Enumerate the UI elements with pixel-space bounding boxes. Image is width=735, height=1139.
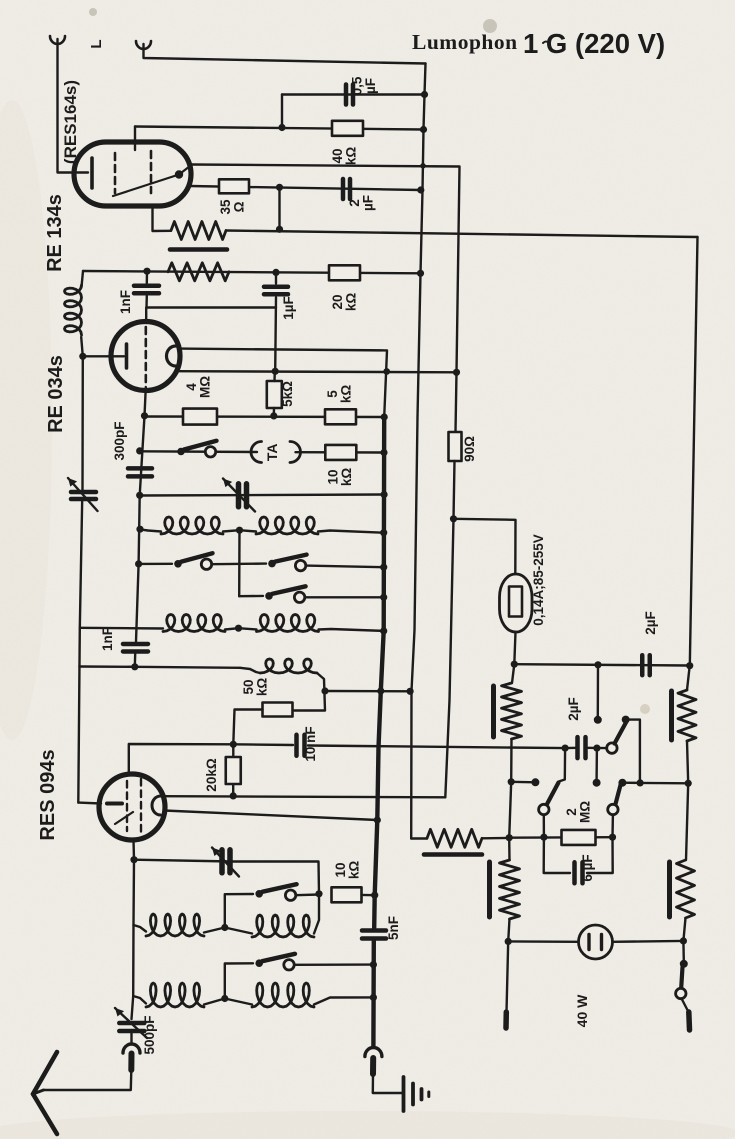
wire: RES094s anode line [163, 796, 445, 797]
junction bank2 / center bus [380, 627, 387, 634]
junction wire665 / switch drop [594, 661, 601, 668]
junction switch4 / center bus [370, 961, 377, 968]
wire: RE034s cathode lead [83, 355, 124, 357]
junction wire691 / B+ bus [407, 688, 414, 695]
wire: 5k vert stems [273, 371, 276, 381]
svg-text:500pF: 500pF [142, 1015, 157, 1054]
switch upper: circle [607, 743, 617, 753]
wire: jack to antenna [44, 1070, 132, 1090]
resistor 20kOhm (top) [329, 265, 360, 280]
wire bank4 mid [204, 999, 252, 1005]
mains switch pivot [680, 960, 688, 968]
inductor bank1 left coil [161, 517, 223, 534]
RE134s cathode bar [90, 158, 94, 188]
inductor bank4 right coil [252, 983, 314, 1007]
ground symbol [402, 1077, 406, 1111]
junction trimmer leg / switch wire [315, 890, 322, 897]
junction switchrow2 / center bus [380, 594, 387, 601]
capacitor 2uF (switch) [575, 737, 580, 758]
wire: coupling coil left stem [240, 668, 260, 673]
wire: jack to earth [373, 1074, 402, 1093]
junction row1 / center bus [381, 413, 388, 420]
antenna symbol [33, 1052, 57, 1094]
stray mark above title [543, 42, 549, 44]
wire switchrow2 b [305, 596, 384, 598]
junction switchrow1 / center bus [380, 564, 387, 571]
inductor bank2 left coil [163, 615, 225, 632]
wire switchrow1 a [139, 563, 172, 566]
switch contact stub [511, 781, 535, 784]
wire right dropper mid2 [686, 783, 688, 860]
wire: 1uF drop lower [274, 298, 277, 372]
resistor 90Ohm [449, 432, 462, 461]
wire: RE034s grid bus [136, 387, 146, 642]
svg-text:2µF: 2µF [643, 611, 658, 635]
svg-text:40 W: 40 W [574, 994, 590, 1027]
resistor dropper upper [502, 683, 522, 739]
RE034s grid dashed [145, 327, 148, 387]
wire: 90Ohm chain lower [454, 461, 455, 519]
RES094s grid dashed 2 [140, 779, 142, 833]
wire: mains switch tail [682, 999, 689, 1013]
dropper upper bar [491, 686, 496, 737]
switch left lower: blade [547, 783, 559, 806]
wire: lamp row right [613, 940, 684, 943]
wire right dropper tail [683, 918, 685, 941]
RE134s anode exit [179, 165, 192, 175]
junction bank4 / center bus [370, 994, 377, 1001]
capacitor 300pF [128, 466, 152, 471]
wire: 35Ohm row [190, 186, 421, 190]
junction right dropper / wire783 [685, 780, 692, 787]
wire: left column tube to bank4 [132, 860, 135, 1019]
capacitor 500pF (variable) [119, 1021, 144, 1026]
wire: left circle to 2M row [543, 815, 546, 838]
wire: RES094s second exit [164, 811, 377, 821]
earth jack socket [365, 1048, 382, 1057]
resistor 20kOhm (grid leak) [226, 757, 241, 784]
resistor (output heater) zigzag [427, 829, 482, 847]
svg-text:6 µF: 6 µF [580, 854, 595, 881]
junction row2 / center bus [380, 449, 387, 456]
capacitor 2uF (anode) [341, 179, 346, 199]
junction fuse / wire665 [511, 661, 518, 668]
row3 trimmer arrow [223, 479, 255, 512]
mains terminal pin (left) [503, 1012, 509, 1028]
svg-text:RE 134s: RE 134s [44, 194, 66, 272]
switch upper: blade [615, 722, 627, 744]
mains switch blade [681, 967, 682, 988]
wire: RES094s grid wire [129, 744, 293, 772]
inductor (RE034s cathode coil, vertical) [65, 285, 82, 335]
svg-text:1 G (220 V): 1 G (220 V) [523, 28, 665, 59]
contact dot (lower right switch) [593, 779, 601, 787]
svg-text:50kΩ: 50kΩ [241, 678, 270, 697]
wire: post2 to top-right bus corner [144, 44, 426, 64]
junction line B / 1uF drop [272, 368, 279, 375]
junction 50k / grid wire [230, 741, 237, 748]
svg-text:2µF: 2µF [566, 697, 581, 721]
wire: pivot elbow [626, 720, 640, 783]
switch upper: pivot dot [622, 716, 630, 724]
wire: trimmer row [134, 860, 232, 862]
wire: 1nF stem top [146, 271, 149, 283]
wire: 2M row [509, 836, 612, 839]
junction bank3 center [221, 924, 228, 931]
mains switch circle [676, 988, 686, 998]
resistor 5kOhm (vertical) [267, 381, 282, 408]
resistor dropper lower [500, 860, 520, 919]
junction bus / 2uF row [417, 186, 424, 193]
junction dropper / contact stub [508, 778, 515, 785]
wire: 1nF row [79, 665, 134, 668]
svg-text:90Ω: 90Ω [462, 436, 477, 462]
junction grid bus row3 [136, 492, 143, 499]
capacitor 2uF (right) [640, 655, 645, 675]
resistor 4MOhm [183, 409, 217, 425]
wire: drop from 35Ohm row [278, 187, 280, 229]
right dropper upper bar [669, 691, 674, 740]
wire: switch3 to 10k [296, 893, 319, 896]
svg-text:10kΩ: 10kΩ [326, 468, 355, 487]
svg-text:Lumophon: Lumophon [412, 30, 518, 54]
wire: 6uF loop [544, 837, 570, 873]
tube RE 034s envelope [111, 322, 180, 391]
resistor right dropper upper [678, 690, 696, 741]
heater bar [170, 247, 227, 252]
inductor bank4 left coil [146, 983, 204, 1007]
junction line B / 90Ohm drop [453, 369, 460, 376]
svg-text:0,5µF: 0,5µF [350, 76, 379, 95]
variable capacitor (left bus) [71, 490, 96, 495]
wire bank3 left [134, 925, 147, 932]
junction cathode tap [79, 353, 86, 360]
RES094s grid dashed 1 [126, 781, 128, 831]
wire: pivot link [622, 782, 640, 785]
capacitor 1uF [264, 285, 288, 290]
capacitor 6uF [572, 862, 577, 883]
heater resistor bar [424, 852, 482, 857]
antenna terminal post 1 [50, 36, 65, 44]
variable capacitor (antenna trim) [219, 850, 225, 873]
antenna terminal post 2 [136, 41, 151, 49]
junction tube stem / trimmer row [130, 856, 137, 863]
wire bank2 mid [225, 628, 257, 629]
svg-text:5nF: 5nF [386, 916, 401, 940]
wire: row3 [140, 495, 384, 496]
junction 1nF top [143, 268, 150, 275]
capacitor 10nF [294, 735, 299, 756]
wire: cap terminal drop [595, 748, 598, 779]
RES094s cathode bar [107, 802, 122, 806]
scan smudge 2 [640, 704, 650, 714]
svg-text:10kΩ: 10kΩ [333, 861, 362, 880]
capacitor 1nF (top) [134, 284, 159, 289]
contact dot (left switch) [531, 778, 539, 786]
barretter inner element [509, 587, 522, 617]
wire: contact drop (upper sw) [597, 665, 600, 716]
junction line B / center bus [383, 368, 390, 375]
resistor 40kOhm [332, 121, 363, 136]
wire: mains top wire [514, 664, 688, 665]
wire: 90Ohm chain to elbow y797 [445, 519, 453, 798]
wire: RE134s cathode return long line [153, 206, 172, 231]
switch (band switch 1b) [268, 560, 276, 568]
wire: bank1 tap drop [238, 530, 241, 596]
junction 10k / center bus [371, 892, 378, 899]
resistor 5kOhm (row1) [325, 409, 356, 424]
junction 1uF top [272, 269, 279, 276]
wire: 1nF stem bottom [145, 296, 148, 308]
switch left lower: circle [539, 804, 549, 814]
wire: 500pF to jack [130, 1031, 132, 1044]
wire: heater resistor to dropper [482, 837, 509, 840]
resistor 10kOhm (antenna) [332, 887, 362, 902]
wire: RES094s cathode stem [132, 840, 135, 860]
wire: left bus down to trimmer [81, 356, 84, 490]
wire: B+ bus elbow to heater resistor [411, 837, 427, 839]
junction bank1 center tap [236, 527, 243, 534]
wire bank3 mid [204, 928, 252, 934]
wire: dropper mid2 [509, 782, 511, 838]
junction cap terminal [593, 745, 600, 752]
RES094s anode arc [152, 796, 161, 815]
svg-text:TA: TA [264, 443, 280, 461]
contact dot (upper switch) [594, 716, 602, 724]
wire: left bus below trimmer [78, 500, 82, 803]
junction gridwire / 2uF-switch [562, 745, 569, 752]
junction wire783 / elbow drop [637, 779, 644, 786]
RE034s anode arc [167, 346, 176, 366]
wire switchrow1 b [212, 562, 267, 565]
resistor 10kOhm (row2) [325, 445, 356, 460]
svg-text:10 nF: 10 nF [303, 726, 318, 761]
junction row1 / 5k vert [270, 412, 277, 419]
switch right lower: blade [616, 785, 621, 804]
tube RE 134s envelope [74, 142, 191, 206]
wire: right chain to switch [682, 941, 685, 961]
switch right lower: circle [608, 804, 618, 814]
junction grid bus row1 [141, 412, 148, 419]
wire: left bus to RES094s cathode [78, 801, 101, 804]
RE134s anode dot [175, 170, 183, 178]
wire: trimmer row corner [232, 862, 319, 894]
junction left / 2M row [540, 834, 547, 841]
svg-text:(RES164s): (RES164s) [61, 80, 80, 164]
earth jack pin [370, 1058, 376, 1074]
resistor 2MOhm [562, 830, 596, 845]
wire: row1 [145, 415, 385, 418]
wire: left bus coil to cathode tap [81, 337, 83, 356]
wire: left sw vertical [560, 748, 566, 781]
wire: dropper mid [510, 739, 513, 782]
wire: 90Ohm chain upper [456, 372, 457, 432]
wire bank1 left [140, 529, 161, 531]
left trimmer arrow [68, 478, 98, 511]
svg-text:5kΩ: 5kΩ [280, 381, 295, 407]
wire: 40k row stem into tube top [134, 127, 136, 151]
wire: 10k to bus [362, 894, 375, 897]
RE134s grid dashed 2 [150, 151, 153, 193]
junction row3 / center bus [381, 491, 388, 498]
500pF arrow [115, 1008, 147, 1038]
junction 0,5uF-drop / 40k row [278, 124, 285, 131]
inductor bank3 right coil [252, 915, 314, 937]
junction dropper / 2M row [506, 834, 513, 841]
junction wire691 / center bus [377, 687, 384, 694]
wire: switch4 to bus [294, 963, 373, 966]
capacitor 5nF [362, 928, 386, 933]
svg-text:1µF: 1µF [281, 296, 296, 320]
svg-text:20kΩ: 20kΩ [204, 758, 219, 792]
wire: left grid-cap lead from post1 down to RE134s [58, 39, 89, 173]
inductor bank1 right coil [256, 517, 318, 534]
switch (row2) [177, 448, 185, 456]
dropper lower bar [487, 862, 492, 917]
junction bus / heater row2 [417, 270, 424, 277]
junction bank2 center tap [235, 625, 242, 632]
scan smudge 1 [483, 19, 497, 33]
wire: RE134s anode line to right corner [192, 165, 460, 373]
wire: center bus (thick) [374, 417, 384, 928]
wire: gridwire to 2uF cap [565, 747, 577, 750]
junction coil drop / wire691 [321, 687, 328, 694]
junction right dropper / lamp row [680, 937, 687, 944]
svg-text:40kΩ: 40kΩ [330, 147, 359, 166]
wire: grid bus to 1nF row node [134, 654, 137, 667]
junction at bus / 0,5uF row [421, 91, 428, 98]
wire: dropper tail [507, 941, 509, 1012]
wire bank2 right [319, 629, 384, 631]
svg-text:L: L [88, 39, 105, 48]
wire bank3 right [314, 894, 319, 934]
wire switchrow2 a [239, 595, 263, 598]
wire: far-right bus [690, 237, 698, 666]
wire: grid wire right [308, 746, 565, 749]
wire: 1uF drop [275, 272, 277, 283]
wire dropper lower stems [508, 838, 511, 860]
pilot lamp [579, 925, 613, 959]
wire: row2 left [140, 450, 257, 453]
wire: right bus to dropper [687, 666, 690, 690]
wire: dropper upper stem [512, 664, 514, 683]
wire: RE034s anode line B [177, 371, 457, 372]
junction bank1 / center bus [380, 529, 387, 536]
junction 1nF bottom node [131, 663, 138, 670]
inductor bank2 right coil [257, 615, 319, 632]
antenna jack socket [123, 1044, 140, 1053]
wire: 1nF row right [135, 667, 240, 668]
wire bank1 right [318, 531, 384, 533]
wire: RE034s line A (screen) to corner [179, 349, 388, 417]
junction grid bus row2 [136, 447, 143, 454]
right dropper lower bar [667, 862, 672, 917]
resistor heater zigzag 2 [168, 263, 229, 281]
inductor bank3 left coil [146, 914, 204, 936]
wire switchrow1 c [306, 566, 384, 568]
junction dropper / lamp row [505, 938, 512, 945]
wire: 0,5uF row drop to 40k row [281, 95, 283, 128]
resistor (filament rheostat) zigzag [171, 222, 226, 240]
resistor 50kOhm [263, 703, 293, 717]
wire right dropper mid [687, 741, 688, 783]
wire: right B+ bus vertical [411, 64, 425, 839]
mains terminal pin (right) [686, 1012, 692, 1030]
wire: fuse branch [454, 519, 516, 574]
resistor 35Ohm [219, 179, 249, 193]
wire: 0,5uF row [282, 93, 425, 95]
wire: row2 right [296, 451, 385, 454]
wire: center bus below 5nF [371, 941, 376, 1046]
wire: fuse to wire665 [514, 632, 515, 664]
svg-text:0,14A;85-255V: 0,14A;85-255V [531, 534, 546, 626]
svg-text:RE 034s: RE 034s [45, 355, 67, 433]
RE034s cathode bar [125, 344, 129, 368]
wire: lamp row left [508, 940, 578, 943]
svg-text:1nF: 1nF [100, 627, 115, 651]
wire bank4 right [314, 997, 373, 1004]
antenna jack pin [128, 1054, 134, 1071]
junction 20k / anode wire [230, 792, 237, 799]
variable capacitor (row3) [236, 484, 242, 507]
wire: heater line to far right corner [226, 231, 698, 238]
svg-text:300pF: 300pF [112, 421, 127, 460]
svg-text:RES 094s: RES 094s [37, 749, 59, 840]
RES094s inner diagonal [115, 812, 133, 824]
wire: link to buses (y691) [325, 690, 410, 693]
RE134s anode diagonal [113, 175, 179, 197]
junction 90Ohm chain / fuse branch [450, 515, 457, 522]
svg-text:1nF: 1nF [118, 290, 133, 314]
junction heater line [276, 226, 283, 233]
wire: wire783 right [640, 782, 688, 785]
capacitor 1nF (bottom) [123, 642, 148, 647]
wire: 40kOhm row [135, 127, 424, 130]
wire: bank4 tap up [225, 963, 253, 998]
wire: grid link line [147, 306, 277, 308]
junction grid bus switchrow1 [135, 560, 142, 567]
wire: RE034s grid stem [145, 308, 147, 324]
scan smudge 3 [89, 8, 97, 16]
tube RES 094s envelope [99, 774, 165, 840]
resistor right dropper lower [677, 860, 695, 918]
wire: heater row2 left corner [82, 271, 84, 287]
switch right lower: pivot [618, 779, 626, 787]
switch (band switch 2) [265, 592, 273, 600]
wire: right circle to 2M row [611, 815, 614, 838]
connector TA right arc [290, 442, 301, 463]
inductor coupling coil [260, 659, 317, 673]
svg-text:20kΩ: 20kΩ [330, 293, 359, 312]
antenna trim arrow [212, 848, 239, 877]
wire: heater row 2 [83, 271, 421, 273]
wire: bank3 tap up [225, 894, 253, 928]
junction grid bus bank1 [136, 526, 143, 533]
wire: 20k stems [232, 744, 234, 757]
junction wire665 / right bus [686, 662, 693, 669]
wire: coupling coil right drop [294, 673, 325, 711]
wire bank2 feed from left bus [80, 627, 163, 630]
switch (wave switch 3) [255, 890, 263, 898]
junction anode-line / B+ bus [420, 163, 426, 169]
junction second exit / center bus [374, 816, 381, 823]
RE134s grid dashed 1 [114, 153, 117, 193]
connector TA left arc [251, 442, 262, 463]
wire bank4 left [133, 996, 146, 1004]
barretter outline [500, 574, 533, 632]
wire: 50k left elbow [233, 710, 262, 745]
switch (band switch 1a) [174, 560, 182, 568]
